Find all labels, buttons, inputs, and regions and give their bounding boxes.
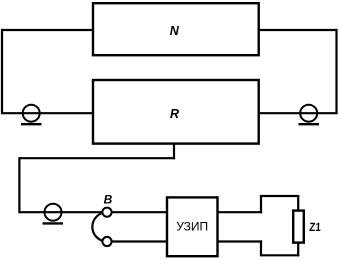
wire: right vertical riser bbox=[335, 29, 337, 114]
wire: Z1 top lead bbox=[297, 196, 299, 211]
wire: node B to UZIP box bbox=[107, 211, 167, 213]
wire: lower left vertical bbox=[18, 157, 20, 213]
wire: N right lead bbox=[259, 29, 337, 31]
current probe bottom (circle) bbox=[45, 204, 62, 221]
box R bbox=[93, 80, 259, 144]
current probe left (circle) bbox=[23, 105, 40, 122]
wire: N left lead bbox=[2, 29, 93, 31]
current probe left base bar bbox=[21, 123, 42, 125]
wire: R bottom stub bbox=[173, 143, 175, 159]
current probe right base bar bbox=[299, 123, 320, 125]
svg-text:Z1: Z1 bbox=[309, 220, 322, 234]
node B terminal (open circle) bbox=[102, 208, 111, 217]
wire: lower horizontal run bbox=[19, 157, 175, 159]
wire: up jog vertical bbox=[260, 196, 262, 213]
wire: bottom run to Z1 bbox=[260, 254, 299, 256]
resistor Z1 body bbox=[293, 211, 304, 243]
svg-text:B: B bbox=[104, 193, 113, 207]
wire: R left lead bbox=[2, 112, 93, 114]
label Z1 bbox=[309, 220, 322, 234]
lower terminal (open circle) bbox=[102, 237, 111, 246]
arc: bypass loop between node B and lower terminal bbox=[92, 212, 107, 241]
wire: left vertical riser bbox=[1, 29, 3, 114]
wire: UZIP right bottom lead bbox=[218, 240, 263, 242]
wire: UZIP right top lead bbox=[218, 211, 263, 213]
wire: R right lead bbox=[259, 112, 337, 114]
svg-text:УЗИП: УЗИП bbox=[176, 220, 208, 234]
wire: top run to Z1 bbox=[260, 195, 299, 197]
wire: Z1 bottom lead bbox=[297, 243, 299, 257]
svg-text:N: N bbox=[170, 24, 180, 38]
current probe right (circle) bbox=[300, 105, 317, 122]
wire: run to node B bbox=[19, 211, 107, 213]
wire: down jog vertical bbox=[260, 240, 262, 255]
box N bbox=[93, 3, 259, 55]
box UZIP (surge protective device) bbox=[167, 197, 218, 256]
wire: lower terminal to UZIP box bbox=[107, 240, 167, 242]
svg-text:R: R bbox=[170, 107, 179, 121]
current probe bottom base bar bbox=[43, 222, 64, 224]
